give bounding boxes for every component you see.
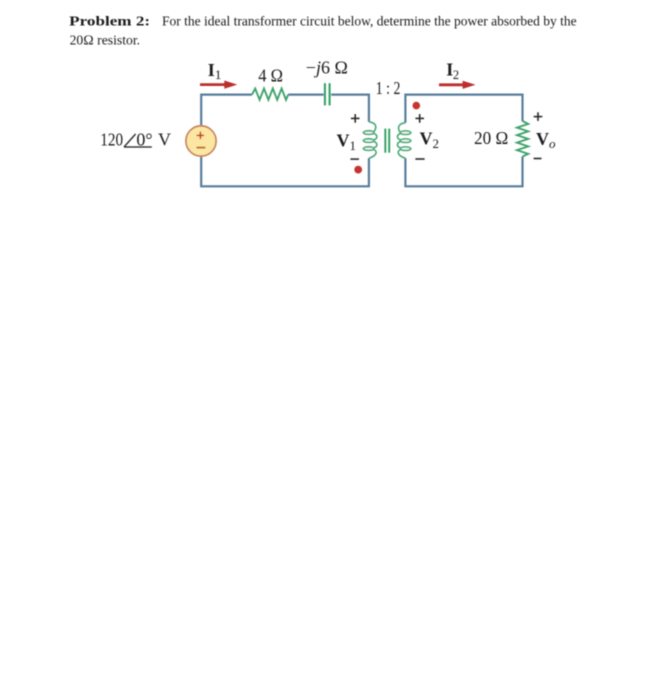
dot secondary (top) — [413, 102, 421, 110]
svg-text:I2: I2 — [446, 60, 459, 82]
polarity V1 plus — [351, 114, 360, 123]
polarity V2 minus — [415, 158, 424, 160]
polarity V2 plus — [415, 114, 424, 123]
svg-text:0°: 0° — [136, 129, 152, 149]
svg-text:20Ω resistor.: 20Ω resistor. — [70, 34, 141, 49]
wire top mid (resistor to capacitor) — [288, 93, 323, 95]
svg-text:V: V — [158, 129, 171, 149]
svg-text:120: 120 — [100, 129, 123, 149]
transformer core — [384, 129, 386, 153]
svg-text:1 : 2: 1 : 2 — [376, 78, 401, 98]
dot primary (bottom) — [354, 166, 362, 174]
polarity V1 minus — [350, 158, 359, 160]
transformer secondary coil — [397, 123, 410, 159]
svg-text:V2: V2 — [420, 129, 440, 151]
wire left loop top — [201, 95, 252, 127]
svg-text:For the ideal transformer circ: For the ideal transformer circuit below,… — [162, 14, 577, 29]
capacitor -j6ohm — [324, 83, 326, 105]
svg-text:−j6 Ω: −j6 Ω — [306, 57, 348, 77]
voltage source 120/0 V — [186, 126, 216, 156]
svg-text:V1: V1 — [337, 131, 357, 153]
polarity Vo minus — [534, 158, 542, 160]
current arrow I2 — [439, 83, 465, 86]
wire right loop top — [405, 95, 522, 123]
svg-text:4 Ω: 4 Ω — [258, 65, 283, 85]
wire right loop bottom — [405, 157, 522, 187]
polarity Vo plus — [534, 112, 543, 121]
svg-text:Problem 2:: Problem 2: — [69, 14, 150, 29]
wire top right of capacitor to primary — [331, 95, 369, 122]
resistor 20ohm — [517, 121, 528, 157]
svg-text:Vo: Vo — [536, 129, 556, 151]
wire left loop bottom — [201, 156, 369, 186]
transformer primary coil — [363, 122, 376, 158]
current arrow I1 — [200, 83, 226, 86]
resistor R 4ohm — [252, 89, 288, 100]
svg-text:I1: I1 — [208, 60, 222, 82]
svg-text:20 Ω: 20 Ω — [474, 128, 508, 148]
